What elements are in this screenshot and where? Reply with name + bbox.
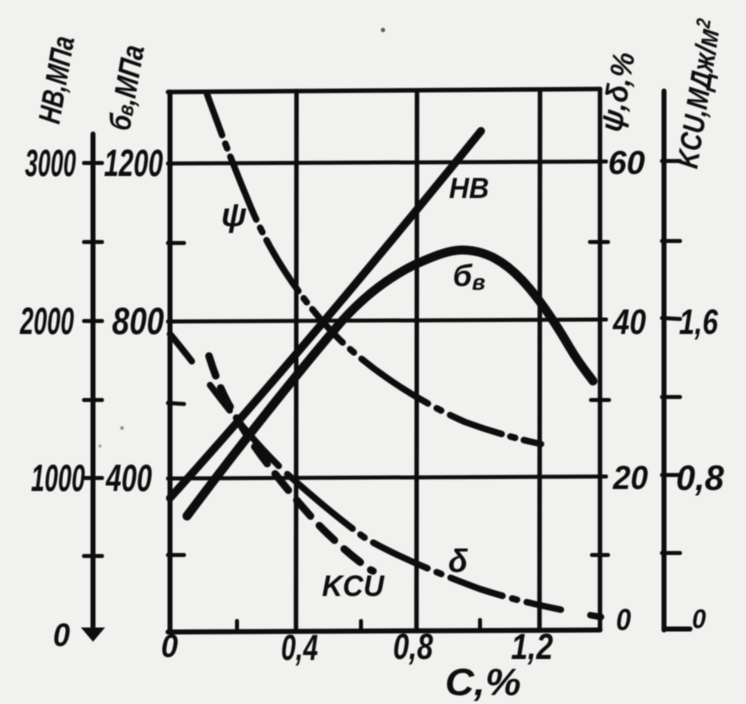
svg-text:40: 40 <box>612 303 646 342</box>
svg-text:HB: HB <box>449 173 489 205</box>
x-axis inner ticks <box>235 621 239 631</box>
svg-text:60: 60 <box>608 144 646 181</box>
HB axis ticks <box>84 161 102 165</box>
scan speck <box>120 426 124 430</box>
gridline vertical C=1.2 <box>537 90 542 631</box>
svg-text:0: 0 <box>616 602 631 637</box>
KCU axis ticks <box>662 159 680 163</box>
svg-text:1,6: 1,6 <box>679 303 718 342</box>
svg-text:ψ: ψ <box>221 196 247 233</box>
svg-text:KCU: KCU <box>322 570 385 603</box>
svg-text:δ: δ <box>448 543 468 579</box>
gridline horizontal 400/20 <box>168 477 606 479</box>
gridline vertical C=0.4 <box>294 91 299 632</box>
svg-text:800: 800 <box>112 301 164 343</box>
svg-text:0,4: 0,4 <box>281 627 318 668</box>
svg-text:0: 0 <box>161 628 178 664</box>
svg-text:400: 400 <box>105 458 152 500</box>
curve delta (dash-dot, elongation) <box>170 334 601 617</box>
scan speck <box>99 445 102 448</box>
gridline horizontal 800/40 <box>168 320 606 322</box>
curve HB (hardness, straight thick line) <box>170 131 481 498</box>
svg-text:0,8: 0,8 <box>676 459 725 498</box>
left plot-border inner ticks <box>168 242 609 631</box>
gridline vertical C=0.8 <box>414 91 419 632</box>
svg-text:20: 20 <box>612 459 649 496</box>
svg-text:1,2: 1,2 <box>511 626 553 667</box>
plot border left <box>168 92 173 632</box>
svg-text:2000: 2000 <box>19 301 74 343</box>
svg-text:C,%: C,% <box>445 662 521 704</box>
svg-text:0: 0 <box>53 617 70 653</box>
right border (psi axis) mid ticks <box>590 240 608 244</box>
svg-text:3000: 3000 <box>25 143 76 185</box>
plot border right (psi-delta axis) <box>598 89 603 630</box>
svg-text:1000: 1000 <box>31 458 85 500</box>
svg-text:0: 0 <box>692 604 706 634</box>
scan speck <box>381 28 385 32</box>
plot border top <box>168 89 600 92</box>
svg-text:1200: 1200 <box>104 143 163 185</box>
curve sigma_v (tensile strength, rises then falls) <box>187 250 593 516</box>
HB axis line <box>82 134 104 641</box>
curve psi (dash-dot, reduction of area) <box>207 94 541 444</box>
svg-text:0,8: 0,8 <box>393 626 433 667</box>
KCU axis line <box>662 91 690 630</box>
curve KCU (dashed, impact toughness) <box>209 356 373 571</box>
gridline horizontal 1200/60 <box>168 162 606 164</box>
plot border bottom (C axis) <box>168 630 600 632</box>
